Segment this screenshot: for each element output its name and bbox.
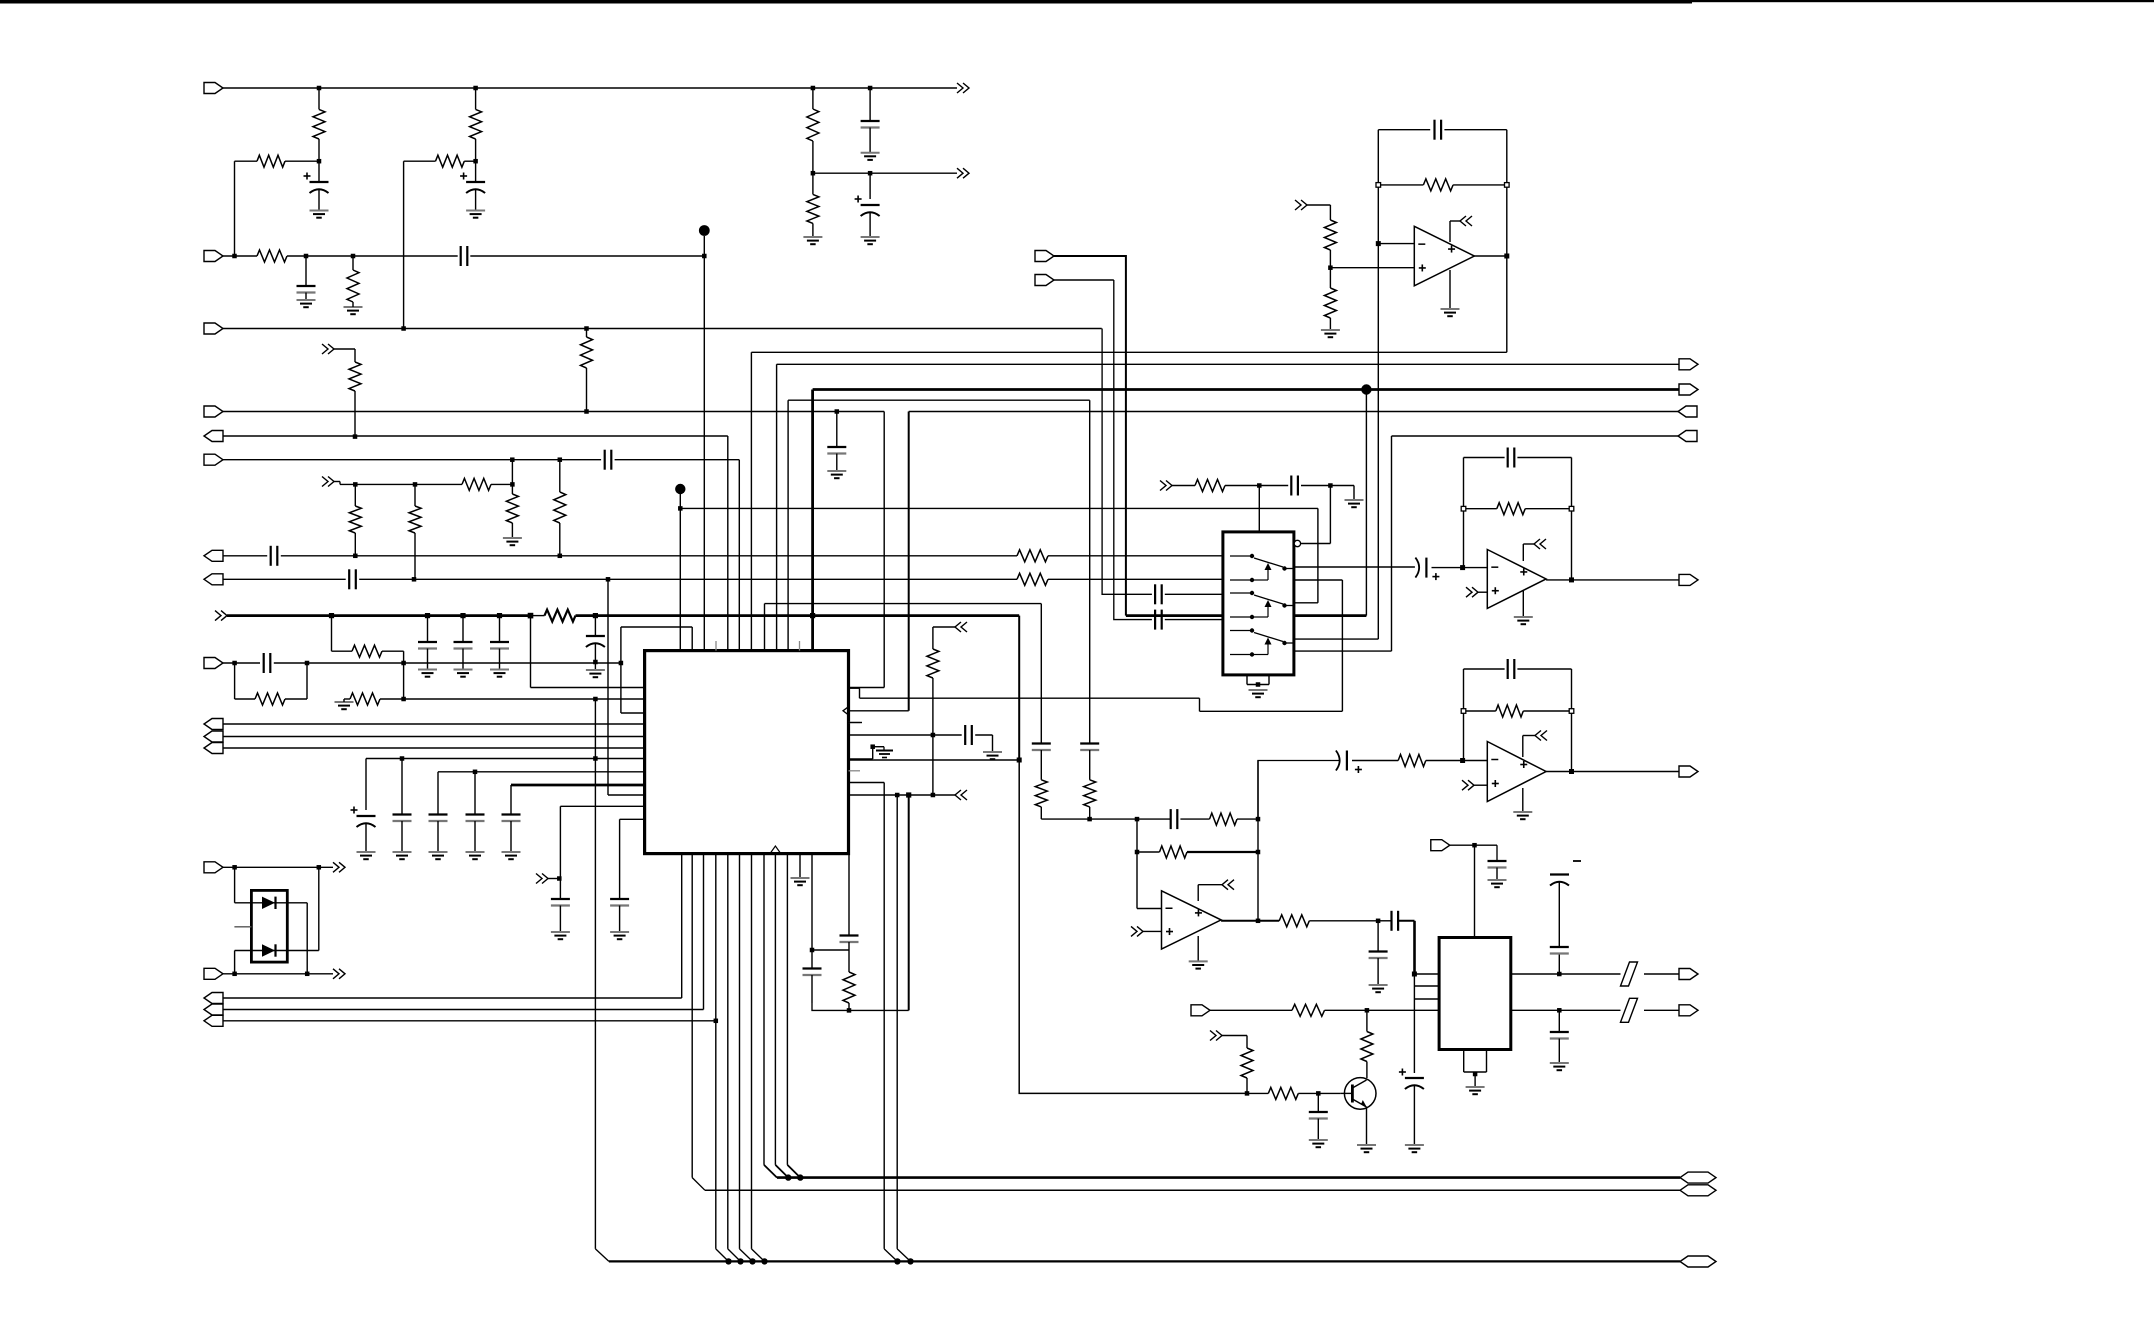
- wire R6 lead: [352, 256, 354, 270]
- wire net-b2: [223, 1009, 704, 1011]
- off-page arrow A4: [322, 477, 334, 487]
- wire net-748: [223, 747, 645, 749]
- wire net-J21: [1054, 279, 1114, 281]
- node n38: [931, 733, 936, 738]
- connector J21: [1035, 275, 1054, 286]
- wire w-620a: [620, 627, 622, 663]
- capacitor C29: [1508, 448, 1515, 468]
- wire w-620b: [621, 626, 692, 628]
- wire w-307: [306, 903, 308, 974]
- ground G1: [310, 211, 329, 218]
- capacitor C14: [1032, 744, 1051, 751]
- wire U4 out: [1546, 771, 1571, 773]
- wire Cb2 lead: [499, 616, 501, 642]
- wire R27 lead: [1329, 205, 1331, 220]
- wire dot2 stem: [679, 494, 681, 508]
- node n14: [584, 409, 589, 414]
- capacitor C3: [461, 246, 468, 266]
- ground G8: [827, 471, 846, 478]
- op-amp U5: [1162, 891, 1222, 949]
- capacitor C25: [1435, 120, 1442, 140]
- wire net-sw-c2: [1165, 619, 1223, 621]
- node n81: [702, 254, 707, 259]
- connector J6: [204, 454, 223, 465]
- bend: [740, 1249, 753, 1262]
- bend: [897, 1249, 910, 1262]
- connector J13: [1678, 431, 1697, 442]
- wire C24 stem: [848, 942, 850, 972]
- wire net-vbus2d: [1294, 614, 1367, 617]
- resistor R24: [927, 649, 939, 678]
- wire D2 out: [287, 950, 319, 952]
- IC U1 pin marker: [770, 846, 781, 854]
- wire net-688d: [1199, 698, 1201, 711]
- node n34: [400, 756, 405, 761]
- wire net-dsp1 drop: [750, 352, 752, 650]
- node n40: [870, 744, 875, 749]
- ground Gb1: [454, 670, 473, 677]
- node n75: [1017, 758, 1022, 763]
- node n80: [895, 793, 900, 798]
- wire w-1318: [1317, 508, 1319, 602]
- corner: [1054, 256, 1126, 616]
- wire net-cb1: [366, 758, 645, 760]
- wire net-vbus-drop: [811, 390, 814, 651]
- capacitor C33: [1171, 809, 1178, 829]
- ground G31: [1309, 1140, 1328, 1147]
- ground Gb2: [490, 670, 509, 677]
- resistor R21: [350, 693, 380, 705]
- ground G19: [1321, 330, 1340, 337]
- node nb4: [497, 613, 502, 618]
- wire net-688e: [1200, 710, 1343, 712]
- wire U6 bpin1: [1463, 1050, 1465, 1073]
- ground G-C18: [429, 852, 448, 859]
- connector J17: [1680, 1172, 1716, 1183]
- wire C40 stem: [1558, 1039, 1560, 1064]
- wire U5 out: [1221, 920, 1279, 922]
- wire net-J6a: [223, 459, 601, 461]
- bend: [692, 1178, 705, 1191]
- resistor R34: [1160, 846, 1188, 858]
- wire G29 stem: [1474, 1072, 1476, 1087]
- node n31: [305, 661, 310, 666]
- wire U2 +in: [1330, 267, 1414, 269]
- off-page arrow A5: [215, 611, 227, 621]
- node n45: [1376, 183, 1381, 188]
- wire net-vbus2a: [227, 614, 531, 617]
- node n16: [353, 434, 358, 439]
- node n76: [232, 865, 237, 870]
- wire net-J6b: [615, 459, 740, 461]
- wire net-u5o3: [1398, 920, 1414, 922]
- wire U2 pwr lead: [1450, 220, 1460, 222]
- wire v-715: [715, 854, 717, 1249]
- op-amp UM: [1487, 550, 1546, 609]
- wire net-J2b: [287, 255, 458, 257]
- resistor R26: [1423, 179, 1453, 191]
- wire U4 cap top: [1464, 668, 1505, 670]
- wire net-795: [849, 794, 956, 796]
- capacitor C22: [965, 725, 972, 745]
- wire loopB1: [235, 698, 255, 700]
- node n59: [1460, 758, 1465, 763]
- capacitor C17: [393, 815, 412, 822]
- wire UM gnd stem: [1522, 591, 1524, 617]
- ground G29: [1466, 1087, 1485, 1094]
- resistor R36: [1292, 1004, 1325, 1016]
- wire U2 -in: [1378, 243, 1414, 245]
- wire U6 lpin1: [1414, 973, 1439, 975]
- wire w-331c: [382, 650, 404, 652]
- off-page arrow A2: [957, 168, 969, 178]
- node n82: [593, 697, 598, 702]
- node n21: [510, 482, 515, 487]
- wire C37 stem: [1413, 1085, 1415, 1145]
- node n52: [1256, 682, 1261, 687]
- connector J10: [1679, 359, 1698, 370]
- wire w-728-down: [727, 436, 729, 651]
- wire net-dot2: [680, 507, 1318, 509]
- connector J12: [1678, 406, 1697, 417]
- capacitor C12: [264, 653, 271, 673]
- wire net-vbus2c: [1126, 614, 1223, 617]
- connector J7: [204, 550, 223, 561]
- off-page arrow A19: [333, 862, 345, 872]
- connector J32: [204, 743, 223, 754]
- wire A18 lead: [1222, 1035, 1247, 1037]
- wire U5 gnd stem: [1197, 936, 1199, 961]
- node n11: [868, 171, 873, 176]
- wire net-J8b: [359, 578, 1017, 580]
- wire C11 lead: [594, 616, 596, 636]
- wire net-A4b: [491, 483, 512, 485]
- wire R8 lead2: [812, 223, 814, 237]
- wire C30 lead: [1432, 567, 1463, 569]
- connector J16: [204, 1015, 223, 1026]
- wire net-722stub: [849, 722, 863, 724]
- wire stap2-l: [787, 400, 789, 650]
- ground G17: [791, 878, 810, 885]
- wire net-sw-rc4: [1330, 485, 1354, 487]
- node dot-L1-788.3: [785, 1174, 791, 1180]
- ground G20: [1345, 500, 1364, 507]
- resistor R19: [352, 645, 382, 657]
- wire w-1137: [1136, 819, 1138, 908]
- wire U3 bpin2: [1268, 675, 1270, 685]
- wire w-1257: [1257, 761, 1259, 921]
- node n12: [401, 326, 406, 331]
- wire R4 lead: [404, 160, 436, 162]
- wire net-div: [813, 172, 957, 174]
- wire net-out364: [777, 363, 1679, 365]
- wire w-884b: [883, 687, 885, 689]
- wire R25 lead: [848, 1003, 850, 1010]
- capacitor C38: [1550, 947, 1569, 954]
- wire C35 lead: [1377, 921, 1379, 952]
- wire w-331b: [332, 650, 353, 652]
- wire w-d2: [234, 951, 236, 974]
- resistor R5: [257, 250, 287, 262]
- wire w-403: [403, 651, 405, 699]
- IC U1 (main DSP): [645, 651, 849, 854]
- wire C20 lead: [510, 785, 512, 815]
- node n23: [353, 554, 358, 559]
- wire UM pwr lead: [1523, 543, 1534, 545]
- wire U5 -in: [1137, 908, 1162, 910]
- wire w-908-thick: [908, 412, 910, 711]
- ground G10: [586, 670, 605, 677]
- wire UM out: [1546, 579, 1571, 581]
- node n44: [714, 1019, 719, 1024]
- node n41: [906, 792, 911, 797]
- wire net-699b: [380, 698, 645, 700]
- capacitor C8: [605, 450, 612, 470]
- connector J22: [1679, 574, 1698, 585]
- wire R8 lead: [812, 173, 814, 194]
- off-page arrow A15: [1535, 731, 1547, 741]
- resistor R18: [545, 610, 576, 622]
- wire R27 lead2: [1329, 250, 1331, 268]
- wire w-800: [799, 854, 801, 878]
- wire C5 lead: [869, 88, 871, 121]
- wire D1 net: [235, 902, 288, 904]
- wire UM fb left: [1463, 458, 1465, 568]
- resistor R4: [436, 155, 465, 167]
- node n67: [1412, 972, 1417, 977]
- node n65: [1256, 919, 1261, 924]
- wire R6 lead2: [352, 302, 354, 307]
- wire bus-L2: [705, 1189, 1680, 1191]
- ground G24: [1189, 961, 1208, 968]
- wire G11 stem: [343, 699, 345, 702]
- wire C21 lead: [559, 879, 561, 900]
- wire C18 stem: [437, 821, 439, 852]
- wire net-819c: [1180, 818, 1209, 820]
- wire net-U4-out: [1572, 771, 1680, 773]
- ground G26: [1488, 880, 1507, 887]
- wire net-795b: [608, 794, 645, 796]
- wire R18 lead: [531, 615, 545, 617]
- capacitor C40: [1550, 1032, 1569, 1039]
- wire R2 lead2: [475, 139, 477, 161]
- node n28: [401, 697, 406, 702]
- bend: [716, 1249, 729, 1262]
- wire U2 pwr stem: [1449, 221, 1451, 242]
- wire net-852b: [1187, 851, 1258, 853]
- wire net-dsp1: [751, 351, 1506, 353]
- ground G28: [1550, 1063, 1569, 1070]
- wire w-620c: [620, 663, 622, 713]
- resistor R3: [257, 155, 285, 167]
- capacitor C4: [297, 286, 316, 293]
- wire C20 stem: [510, 821, 512, 852]
- wire C32 lead: [1352, 760, 1398, 762]
- clock arrow clk: [843, 706, 849, 715]
- analog switch U3: [1223, 532, 1294, 675]
- wire net-J2a: [223, 255, 257, 257]
- node n43: [847, 1008, 852, 1013]
- connector J14: [204, 993, 223, 1004]
- capacitor C13: [610, 899, 629, 906]
- bend: [764, 1165, 777, 1178]
- wire net-out364 drop: [776, 364, 778, 650]
- node dot-L3-728.5: [725, 1258, 731, 1264]
- node n39: [931, 793, 936, 798]
- node dot2: [675, 484, 685, 494]
- wire U4 gnd stem: [1522, 788, 1524, 812]
- off-page arrow A10: [1295, 200, 1307, 210]
- wire U6 bjoin: [1464, 1071, 1487, 1073]
- wire w-1330-bub: [1329, 486, 1331, 544]
- ground G2: [466, 211, 485, 218]
- wire net-782: [849, 782, 885, 784]
- wire w-530: [530, 616, 532, 688]
- capacitor C28: [1155, 610, 1162, 630]
- wire R15 lead2: [559, 523, 561, 556]
- wire C19 stem: [474, 821, 476, 852]
- wire w-331: [331, 616, 333, 652]
- wire R24 lead2: [932, 678, 934, 735]
- wire C18 lead: [437, 772, 439, 815]
- wire U5 +in: [1143, 930, 1162, 932]
- wire v-681: [681, 854, 683, 998]
- wire U2 cap top: [1378, 129, 1430, 131]
- wire w-R4-J3: [403, 161, 405, 328]
- diode D2: [262, 944, 276, 956]
- wire U4 +in: [1474, 784, 1487, 786]
- wire C11 stem: [594, 643, 596, 662]
- wire U2 fb right: [1506, 130, 1508, 353]
- wire w-739-down: [738, 460, 740, 651]
- wire R9 lead2: [586, 368, 588, 412]
- off-page arrow A14: [1462, 780, 1474, 790]
- wire UM +in: [1478, 591, 1487, 593]
- capacitor C16 (polarized): [351, 807, 376, 828]
- wire net-J9a: [223, 662, 260, 664]
- wire w-1414b: [1413, 974, 1415, 1073]
- node n24: [558, 554, 563, 559]
- connector J11: [1679, 384, 1698, 395]
- node n20: [413, 482, 418, 487]
- capacitor C36: [1488, 861, 1507, 868]
- node n32: [619, 661, 624, 666]
- wire net-stap2: [788, 399, 1090, 401]
- node n1: [317, 86, 322, 91]
- node dot1: [699, 225, 710, 236]
- wire R39 lead2: [1246, 1078, 1248, 1093]
- node n5: [317, 159, 322, 164]
- node n2: [473, 86, 478, 91]
- node n63: [1135, 850, 1140, 855]
- node n73: [1316, 1091, 1321, 1096]
- ground G21: [1249, 690, 1268, 697]
- capacitor Cb2: [490, 642, 509, 649]
- node n47: [1376, 241, 1381, 246]
- connector J9: [204, 658, 223, 669]
- wire C17 stem: [401, 821, 403, 852]
- wire R3 lead: [235, 160, 258, 162]
- wire net-J27b: [1325, 1009, 1440, 1011]
- wire R22 lead: [1040, 807, 1042, 819]
- off-page arrow A8: [955, 790, 967, 800]
- wire net-687: [531, 687, 645, 689]
- wire A3 lead: [334, 348, 355, 350]
- wire R37 lead2: [1366, 1062, 1368, 1079]
- node n19: [353, 482, 358, 487]
- wire net-J27a: [1210, 1009, 1292, 1011]
- node n72: [1365, 1008, 1370, 1013]
- wire R14 lead: [414, 484, 416, 506]
- capacitor C26: [1291, 476, 1298, 496]
- wire w-1391: [1391, 436, 1393, 651]
- node n56: [1569, 577, 1574, 582]
- node n55: [1460, 565, 1465, 570]
- node n37: [557, 876, 562, 881]
- wire net-sw-rc: [1225, 485, 1259, 487]
- wire v-764: [763, 854, 765, 1165]
- node nb1: [329, 613, 334, 618]
- diode block D1/D2: [251, 890, 287, 962]
- wire net-out436: [1392, 435, 1679, 437]
- wire w-1378-b: [1294, 638, 1378, 640]
- wire U3 bjoin: [1247, 684, 1269, 686]
- capacitor C24: [840, 936, 859, 943]
- ground G23: [1513, 812, 1532, 819]
- node dot-L3-897.4: [894, 1258, 900, 1264]
- node dot-L1-800.3: [797, 1174, 803, 1180]
- page border top: [0, 0, 2154, 4]
- off-page arrow A11: [1160, 481, 1172, 491]
- off-page arrow A12: [1466, 587, 1478, 597]
- connector J2: [204, 251, 223, 262]
- resistor R1: [313, 109, 325, 139]
- wire net-J2c: [470, 255, 704, 257]
- wire net-806: [560, 805, 644, 807]
- U3 enable bubble: [1294, 540, 1300, 546]
- corner: [1496, 845, 1498, 861]
- node n6: [473, 159, 478, 164]
- node n68: [1472, 843, 1477, 848]
- wire U2 res row a: [1378, 184, 1423, 186]
- node n48: [1504, 254, 1509, 259]
- wire R28 lead: [1329, 268, 1331, 288]
- node nb8: [810, 613, 815, 618]
- wire C16 lead: [365, 759, 367, 811]
- pin stub: [849, 722, 861, 724]
- wire Q1 base net2: [1298, 1092, 1318, 1094]
- wire U4 res row a: [1464, 710, 1496, 712]
- wire net-J3: [223, 328, 1102, 330]
- wire net-J8c: [1048, 578, 1223, 580]
- wire Cb1 stem: [462, 649, 464, 670]
- capacitor Cb0: [418, 642, 437, 649]
- wire w-1475: [1474, 845, 1476, 937]
- wire net-J24: [1450, 844, 1497, 846]
- off-page arrow A17: [1222, 880, 1234, 890]
- wire net-688c: [860, 697, 1200, 699]
- resistor R6: [347, 270, 359, 302]
- connector J24: [1431, 840, 1450, 851]
- off-page arrow A3: [322, 344, 334, 354]
- node n9: [351, 254, 356, 259]
- node n60: [1569, 769, 1574, 774]
- wire UM fb right: [1571, 458, 1573, 580]
- wire net-cb2: [438, 771, 645, 773]
- wire net-J28: [223, 866, 333, 868]
- wire U4 fb right: [1571, 669, 1573, 772]
- wire C1 top lead: [318, 161, 320, 182]
